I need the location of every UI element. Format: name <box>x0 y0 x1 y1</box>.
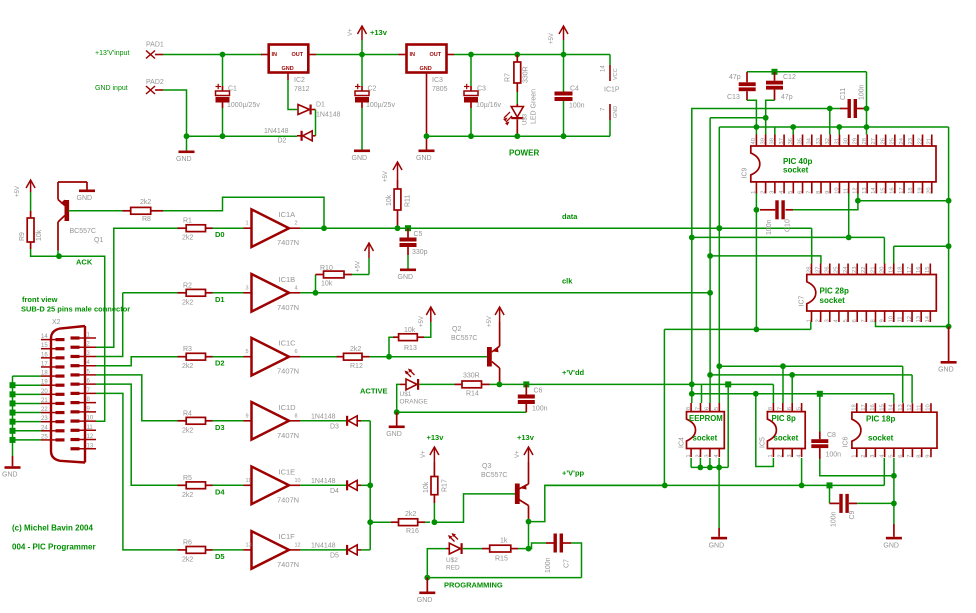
wire vdd eeprom sq vertical <box>725 381 731 467</box>
transistor Q1 BC557C <box>58 182 103 256</box>
svg-text:8: 8 <box>686 407 692 410</box>
junction pin36 drop <box>790 124 796 130</box>
wire clk to PIC28 pin27 <box>710 256 821 264</box>
junction eeprom pin2 <box>698 465 704 471</box>
junction R7 top <box>514 52 520 58</box>
supply +5V arrow at C4 <box>549 26 568 55</box>
supply +13v arrow <box>348 26 388 55</box>
wire data vertical <box>718 228 720 403</box>
svg-text:VCC: VCC <box>613 68 619 80</box>
svg-text:14: 14 <box>871 187 877 194</box>
label D4 <box>215 487 225 496</box>
wire PIC8p pin8 drop <box>772 384 774 403</box>
svg-text:R8: R8 <box>142 216 151 223</box>
IC7 PIC 28p socket <box>799 264 937 323</box>
junction Q3 collector node <box>526 519 532 525</box>
LED U$3 green <box>503 89 538 136</box>
svg-text:IC1P: IC1P <box>604 87 620 94</box>
svg-text:(c) Michel Bavin 2004: (c) Michel Bavin 2004 <box>12 524 93 533</box>
wire DB25 pin24 to gnd <box>10 428 42 434</box>
junction R10 tap <box>313 290 319 296</box>
wire C2 to ground <box>361 108 363 150</box>
junction pin31 drop <box>836 124 842 130</box>
svg-text:C10: C10 <box>785 219 792 232</box>
label D2 <box>215 359 225 368</box>
ground below IC3 <box>416 150 435 163</box>
svg-text:D1: D1 <box>215 295 225 304</box>
label title <box>12 543 96 552</box>
svg-text:22: 22 <box>917 138 923 144</box>
resistor R14 330R <box>419 373 499 398</box>
junction GND rail left <box>184 133 190 139</box>
junction R17 bottom <box>432 519 438 525</box>
svg-text:C8: C8 <box>827 432 836 439</box>
svg-text:5: 5 <box>246 349 249 355</box>
svg-text:12: 12 <box>87 434 94 440</box>
wire PIC8p pin1 jog <box>756 394 774 467</box>
svg-text:20: 20 <box>41 389 48 395</box>
svg-text:17: 17 <box>41 361 48 367</box>
wire PIC40 pin32 drop <box>829 109 831 135</box>
junction R8 tap <box>321 225 327 231</box>
svg-text:18: 18 <box>852 404 858 410</box>
svg-text:15: 15 <box>879 404 885 410</box>
svg-text:9: 9 <box>926 454 932 457</box>
svg-text:IC7: IC7 <box>799 296 806 307</box>
wire D1 row <box>123 292 178 294</box>
svg-text:+13v: +13v <box>427 433 445 442</box>
capacitor C10 100n <box>760 200 793 235</box>
svg-text:9: 9 <box>825 191 831 194</box>
wire y127 bus <box>719 126 948 128</box>
wire DB25 pin19 to gnd <box>10 382 42 388</box>
svg-text:2k2: 2k2 <box>350 346 361 353</box>
svg-text:IN: IN <box>272 52 278 58</box>
op-amp power IC1P <box>601 65 620 120</box>
diode D1 1N4148 <box>298 102 341 119</box>
junction data y228 <box>716 225 722 231</box>
svg-text:C3: C3 <box>477 86 486 93</box>
supply +5V arrow R9 <box>15 180 35 211</box>
junction data vertical <box>716 225 722 231</box>
junction data row2 <box>716 363 722 369</box>
wire DB25 pin5 to D3 row <box>96 375 178 421</box>
junction osc y127 <box>864 124 870 130</box>
svg-text:BC557C: BC557C <box>481 472 507 479</box>
wire y127 to data <box>718 127 720 228</box>
label clk <box>562 277 573 286</box>
svg-text:5: 5 <box>843 319 849 322</box>
wire DB25 pin21 to gnd <box>10 400 42 406</box>
svg-text:R11: R11 <box>405 195 412 207</box>
wire ACK to DB25 pin2 <box>61 256 105 421</box>
resistor R15 1k <box>463 538 529 563</box>
svg-text:1000µ/25v: 1000µ/25v <box>227 102 260 109</box>
label POWER <box>509 149 539 158</box>
svg-text:IC1F: IC1F <box>279 532 296 541</box>
svg-text:26: 26 <box>825 267 831 273</box>
svg-text:12: 12 <box>907 316 913 322</box>
svg-text:5: 5 <box>714 407 720 410</box>
svg-text:IC5: IC5 <box>760 437 767 448</box>
svg-text:35: 35 <box>797 138 803 144</box>
svg-text:GND: GND <box>282 66 294 72</box>
svg-text:6: 6 <box>852 319 858 322</box>
svg-text:21: 21 <box>870 267 876 273</box>
svg-text:2: 2 <box>861 454 867 457</box>
op-amp IC1B 7407N <box>244 274 301 312</box>
svg-text:D3: D3 <box>215 423 225 432</box>
svg-text:2: 2 <box>695 454 701 457</box>
svg-text:9: 9 <box>246 413 249 419</box>
capacitor C2 100u/25v <box>355 84 395 109</box>
svg-text:100n: 100n <box>532 406 548 413</box>
junction eeprom pin4 <box>716 465 722 471</box>
supply +13v arrow Q3 <box>515 433 535 462</box>
svg-text:GND: GND <box>386 431 402 438</box>
svg-text:C6: C6 <box>534 388 543 395</box>
svg-text:17: 17 <box>861 404 867 410</box>
svg-text:19: 19 <box>917 187 923 193</box>
label D3 <box>215 423 225 432</box>
junction C9 gnd <box>891 501 897 507</box>
resistor R7 330R <box>505 55 530 93</box>
svg-text:25: 25 <box>41 434 48 440</box>
wire PIC28 pin20 drop <box>883 237 885 263</box>
svg-text:D2: D2 <box>278 138 287 145</box>
LED U$1 orange <box>400 369 429 406</box>
wire PIC8p pin4 drop <box>801 458 803 485</box>
svg-text:D3: D3 <box>330 424 339 431</box>
svg-text:13: 13 <box>862 187 868 193</box>
wire Q3 collector to vpp rail <box>529 485 665 521</box>
IC9 PIC 40p socket <box>742 135 937 194</box>
svg-text:GND: GND <box>420 66 432 72</box>
svg-text:IC4: IC4 <box>679 437 686 448</box>
ground Q1 emitter <box>77 190 96 203</box>
svg-text:14: 14 <box>889 403 895 410</box>
svg-text:11: 11 <box>916 405 922 411</box>
svg-text:1N4148: 1N4148 <box>311 414 336 421</box>
pad PAD2 (GND input) <box>95 79 164 94</box>
wire osc top <box>747 71 867 73</box>
junction clk bus end <box>707 290 713 296</box>
svg-text:+5V: +5V <box>356 261 362 272</box>
svg-text:C9: C9 <box>849 510 856 519</box>
svg-text:ACK: ACK <box>76 258 93 267</box>
svg-text:IC2: IC2 <box>294 77 305 84</box>
svg-text:PIC 8p: PIC 8p <box>772 414 796 423</box>
svg-text:1: 1 <box>686 454 692 457</box>
svg-text:D0: D0 <box>215 230 225 239</box>
svg-text:9: 9 <box>879 319 885 322</box>
svg-text:6: 6 <box>797 191 803 194</box>
svg-text:7407N: 7407N <box>277 303 299 312</box>
svg-text:13: 13 <box>916 316 922 322</box>
junction D4 merge <box>367 482 373 488</box>
svg-text:7407N: 7407N <box>277 238 299 247</box>
wire vdd corner top <box>692 109 840 238</box>
wire DB25 pin2 to D0 row <box>96 228 178 347</box>
svg-text:V+: V+ <box>421 450 427 458</box>
wire D1 to D2 <box>315 110 317 136</box>
capacitor C3 10u/16v <box>464 84 502 109</box>
svg-text:100n: 100n <box>545 557 552 573</box>
wire C3 top <box>470 55 472 87</box>
svg-text:+13v: +13v <box>517 433 535 442</box>
regulator IC3 7805 <box>399 45 455 94</box>
supply +13v arrow R17 <box>421 433 444 462</box>
label PROGRAMMING <box>444 581 503 590</box>
wire osc right vertical <box>866 72 868 135</box>
supply +5V arrow R13 <box>419 307 435 337</box>
svg-text:C13: C13 <box>727 94 740 101</box>
wire DB25 pin4 to D2 row <box>96 357 178 366</box>
junction LED bottom <box>514 133 520 139</box>
svg-text:6: 6 <box>898 454 904 457</box>
svg-text:R16: R16 <box>406 528 419 535</box>
svg-text:8: 8 <box>816 191 822 194</box>
svg-text:6: 6 <box>295 349 298 355</box>
svg-text:2k2: 2k2 <box>405 511 416 518</box>
svg-text:2: 2 <box>760 191 766 194</box>
wire PIC18p pin5 drop <box>893 458 895 476</box>
svg-text:37: 37 <box>779 138 785 144</box>
svg-text:C5: C5 <box>414 231 423 238</box>
pad PAD1 (+13V input) <box>95 42 164 59</box>
wire PIC18p pin12 drop <box>911 375 913 403</box>
svg-text:24: 24 <box>899 137 905 144</box>
wire C13 bottom to pin40 <box>747 100 756 134</box>
svg-text:28: 28 <box>862 138 868 144</box>
svg-text:39: 39 <box>760 138 766 144</box>
wire Q1 base to R8 <box>68 210 122 212</box>
svg-text:OUT: OUT <box>292 52 304 58</box>
svg-text:2k2: 2k2 <box>182 363 193 370</box>
capacitor C1 1000u/25v <box>216 84 261 109</box>
svg-text:LED Green: LED Green <box>531 89 538 124</box>
svg-text:OUT: OUT <box>430 52 442 58</box>
svg-text:R2: R2 <box>183 282 192 289</box>
junction C11 right <box>864 106 870 112</box>
capacitor C9 100n <box>827 482 858 527</box>
svg-text:C4: C4 <box>570 86 579 93</box>
svg-text:7407N: 7407N <box>277 495 299 504</box>
resistor R16 2k2 <box>370 511 430 535</box>
wire gnd run programming <box>427 577 581 579</box>
svg-text:U$1: U$1 <box>400 391 412 398</box>
svg-text:2k2: 2k2 <box>140 199 151 206</box>
junction C4 bottom <box>561 133 567 139</box>
wire R8 to IC1A output <box>163 197 324 228</box>
svg-text:15: 15 <box>880 187 886 193</box>
op-amp IC1D 7407N <box>244 402 301 440</box>
junction R15 node <box>526 546 532 552</box>
wire R9 bottom to ACK node <box>31 249 57 256</box>
wire gnd bottom right <box>893 476 895 524</box>
svg-text:ORANGE: ORANGE <box>400 399 429 406</box>
svg-text:2k2: 2k2 <box>182 492 193 499</box>
capacitor C7 100n <box>529 534 572 574</box>
wire clk bus <box>300 292 710 294</box>
svg-text:16: 16 <box>41 352 48 358</box>
wire DB25 pin6 to D4 row <box>96 384 178 485</box>
svg-text:10: 10 <box>926 404 932 410</box>
svg-text:D2: D2 <box>215 359 225 368</box>
resistor R5 2k2 <box>178 475 213 499</box>
junction clk row2 <box>707 372 713 378</box>
ground below C2 <box>352 150 371 163</box>
label X2 <box>52 319 61 326</box>
svg-text:12: 12 <box>295 542 301 548</box>
junction vpp PIC8p pin4 <box>799 483 805 489</box>
wire IC2 out to IC3 in <box>316 54 399 56</box>
svg-text:19: 19 <box>41 380 48 386</box>
svg-text:47p: 47p <box>729 74 741 81</box>
svg-text:1N4148: 1N4148 <box>311 478 336 485</box>
svg-text:24: 24 <box>41 425 48 431</box>
junction vdd PIC8p pin1 tap <box>753 391 759 397</box>
svg-text:GND: GND <box>77 195 93 202</box>
svg-text:7: 7 <box>807 191 813 194</box>
wire U$1 node to C6 <box>397 411 527 413</box>
svg-text:C7: C7 <box>564 559 571 568</box>
IC4 EEPROM socket <box>679 403 725 458</box>
wire C1 bottom <box>222 108 224 136</box>
svg-text:Q1: Q1 <box>94 237 103 244</box>
svg-text:2k2: 2k2 <box>182 299 193 306</box>
junction PIC40 pin11 <box>846 235 852 241</box>
svg-text:IC1B: IC1B <box>279 275 296 284</box>
svg-text:2k2: 2k2 <box>182 427 193 434</box>
regulator IC2 7812 <box>261 45 316 94</box>
wire vpp rail <box>545 484 885 486</box>
svg-text:1: 1 <box>751 191 757 194</box>
label +vpp <box>562 469 585 478</box>
wire vdd vertical to EEPROM pin8 <box>691 237 693 403</box>
svg-text:15: 15 <box>41 343 48 349</box>
label ACTIVE <box>360 387 388 396</box>
wire EEPROM pin1 drop <box>690 458 692 467</box>
wire R2 to buffer <box>213 292 244 294</box>
svg-text:28: 28 <box>806 267 812 273</box>
wire PIC28 pin8 to gnd <box>876 322 949 327</box>
wire data to PIC28 pin28 <box>811 228 813 263</box>
svg-text:7407N: 7407N <box>277 560 299 569</box>
junction pin12 node <box>855 198 861 204</box>
junction eeprom pin3 <box>707 465 713 471</box>
resistor R3 2k2 <box>178 346 213 370</box>
wire vdd row <box>692 236 885 238</box>
svg-text:C11: C11 <box>840 88 847 100</box>
svg-text:IC1A: IC1A <box>279 210 296 219</box>
wire PIC8p pin6 drop <box>791 375 793 403</box>
wire pin36 drop <box>792 127 794 135</box>
ground below PAD2 rail <box>176 136 195 163</box>
svg-text:24: 24 <box>843 266 849 273</box>
svg-text:330p: 330p <box>412 249 428 256</box>
svg-text:27: 27 <box>871 138 877 144</box>
svg-text:8: 8 <box>768 407 774 410</box>
op-amp IC1E 7407N <box>244 467 301 505</box>
wire vpp row <box>664 328 810 330</box>
wire +5v rail <box>454 54 610 56</box>
svg-text:27: 27 <box>815 267 821 273</box>
resistor R2 2k2 <box>178 282 213 306</box>
svg-text:8: 8 <box>870 319 876 322</box>
svg-text:10: 10 <box>889 316 895 322</box>
svg-text:100n: 100n <box>826 452 842 459</box>
svg-text:1k: 1k <box>500 538 508 545</box>
capacitor C8 100n <box>811 391 841 459</box>
svg-text:R6: R6 <box>183 539 192 546</box>
svg-text:8: 8 <box>295 413 298 419</box>
wire GND rail left <box>187 135 298 137</box>
wire DB25 pin18 to gnd <box>13 375 42 377</box>
junction pin40 node <box>754 124 760 130</box>
svg-text:X2: X2 <box>52 319 61 326</box>
capacitor C11 100n <box>840 84 866 118</box>
svg-text:47p: 47p <box>781 94 793 101</box>
wire C3 bottom <box>470 108 472 136</box>
svg-text:PIC 18p: PIC 18p <box>866 415 895 424</box>
wire R3 to buffer <box>213 356 244 358</box>
svg-text:5: 5 <box>796 407 802 410</box>
svg-text:7407N: 7407N <box>277 367 299 376</box>
junction vdd pin1 branch <box>689 391 695 397</box>
svg-text:+'V'pp: +'V'pp <box>562 469 585 478</box>
svg-text:BC557C: BC557C <box>451 335 477 342</box>
svg-text:10: 10 <box>295 478 301 484</box>
svg-text:R5: R5 <box>183 475 192 482</box>
svg-text:R1: R1 <box>183 218 192 225</box>
svg-text:10: 10 <box>87 416 94 422</box>
svg-text:socket: socket <box>693 434 718 443</box>
svg-text:+5V: +5V <box>549 33 555 44</box>
wire vdd branch row <box>692 393 894 395</box>
junction R11 bottom <box>395 225 401 231</box>
resistor R6 2k2 <box>178 539 213 563</box>
svg-text:13: 13 <box>898 404 904 410</box>
label D5 <box>215 552 225 561</box>
wire PIC18p pin14 drop <box>893 394 895 403</box>
svg-text:R17: R17 <box>442 479 449 492</box>
wire C9 to gnd vertical <box>857 502 894 504</box>
svg-text:R3: R3 <box>183 346 192 353</box>
svg-text:PIC 28p: PIC 28p <box>820 287 849 296</box>
wire D5 to merge <box>361 549 370 551</box>
label copyright <box>12 524 93 533</box>
LED U$2 red <box>446 533 463 572</box>
svg-text:100n: 100n <box>766 219 773 235</box>
svg-text:data: data <box>562 212 578 221</box>
svg-text:GND: GND <box>2 472 18 479</box>
svg-text:D4: D4 <box>330 488 339 495</box>
svg-text:7: 7 <box>778 407 784 410</box>
svg-text:23: 23 <box>908 138 914 144</box>
junction R16 tap <box>367 519 373 525</box>
svg-text:IC9: IC9 <box>742 168 749 179</box>
svg-text:+13'V'input: +13'V'input <box>95 50 129 57</box>
svg-text:front view: front view <box>22 295 58 304</box>
svg-text:13: 13 <box>246 542 252 548</box>
junction R13 tap <box>386 354 392 360</box>
label ACK <box>76 258 93 267</box>
svg-text:2k2: 2k2 <box>182 556 193 563</box>
svg-text:Q3: Q3 <box>482 463 491 470</box>
svg-text:2: 2 <box>815 319 821 322</box>
svg-text:3: 3 <box>870 454 876 457</box>
